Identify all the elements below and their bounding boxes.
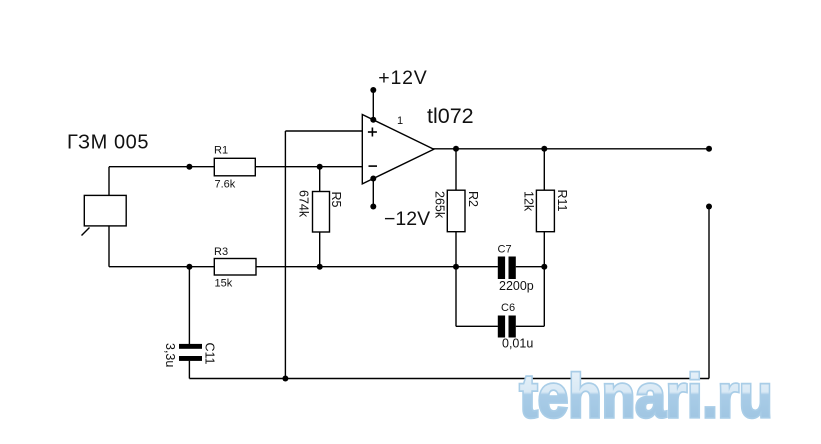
svg-text:−12V: −12V (384, 208, 430, 230)
svg-text:12k: 12k (522, 191, 536, 212)
svg-text:1: 1 (397, 115, 403, 127)
svg-text:R3: R3 (214, 246, 228, 258)
svg-text:tl072: tl072 (427, 104, 474, 128)
svg-text:+12V: +12V (378, 67, 427, 89)
svg-text:7.6k: 7.6k (215, 179, 236, 191)
svg-text:3,3u: 3,3u (163, 343, 177, 367)
svg-text:R2: R2 (466, 191, 480, 207)
svg-text:R5: R5 (329, 192, 343, 208)
svg-text:265k: 265k (433, 191, 447, 219)
svg-text:C6: C6 (501, 302, 515, 314)
svg-text:15k: 15k (215, 278, 233, 290)
svg-text:C7: C7 (498, 243, 512, 255)
svg-text:tehnari.ru: tehnari.ru (520, 362, 773, 430)
svg-text:R11: R11 (555, 190, 569, 212)
svg-text:C11: C11 (203, 343, 217, 365)
svg-text:2200p: 2200p (499, 279, 534, 293)
svg-text:674k: 674k (297, 190, 311, 218)
svg-text:ГЗМ 005: ГЗМ 005 (67, 131, 149, 153)
svg-text:R1: R1 (214, 145, 228, 157)
svg-text:0,01u: 0,01u (502, 337, 533, 351)
